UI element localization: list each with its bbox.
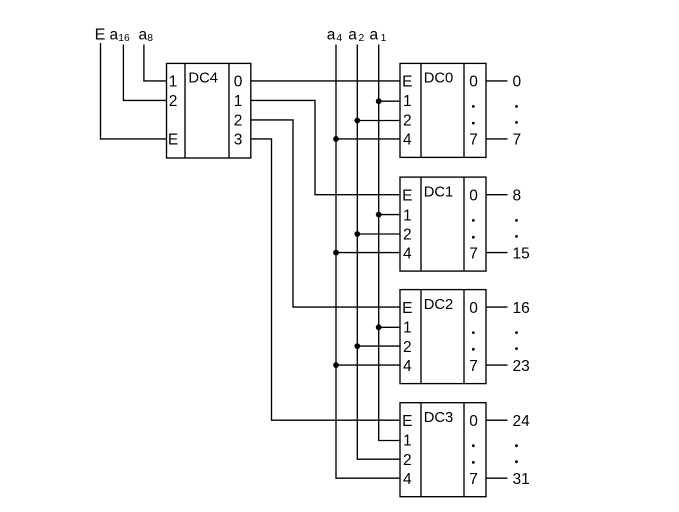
ellipsis dots outputs 8..15 (515, 219, 518, 222)
svg-text:2: 2 (403, 452, 412, 469)
decoder U5 DC3 outline (400, 403, 486, 497)
svg-text:a: a (370, 27, 379, 44)
decoder U2 DC0 inner column separators (421, 63, 464, 157)
svg-text:a: a (348, 27, 357, 44)
wire DC2 output 0 (486, 306, 508, 308)
wire a1 tap to DC0 input 1 (379, 100, 400, 102)
svg-text:1: 1 (403, 432, 412, 449)
wire DC4 output 3 to DC3 E (251, 139, 400, 420)
svg-text:E: E (402, 300, 412, 317)
svg-text:DC2: DC2 (424, 297, 454, 313)
svg-text:4: 4 (403, 358, 412, 375)
wire DC4 output 1 to DC1 E (251, 100, 400, 194)
wire a4 tap to DC1 input 4 (336, 252, 400, 254)
svg-text:2: 2 (403, 227, 412, 244)
svg-text:23: 23 (513, 358, 530, 375)
wire DC2 output 7 (486, 364, 508, 366)
svg-text:E: E (402, 413, 412, 430)
svg-text:2: 2 (169, 93, 178, 110)
junction a2/DC0 (354, 118, 360, 124)
junction a1/DC1 (376, 212, 382, 218)
wire DC3 output 7 (486, 477, 508, 479)
svg-text:31: 31 (513, 471, 530, 488)
wire DC4 output 2 to DC2 E (251, 120, 400, 307)
svg-text:1: 1 (169, 74, 178, 91)
wire DC1 output 7 (486, 252, 508, 254)
decoder U1 DC4 outline (167, 63, 251, 158)
wire E input (101, 43, 167, 139)
wire a2 tap to DC2 input 2 (357, 345, 400, 347)
wire DC0 output 0 (486, 80, 508, 82)
svg-text:0: 0 (469, 187, 478, 204)
junction a1/DC0 (376, 98, 382, 104)
wire DC0 output 7 (486, 138, 508, 140)
svg-text:4: 4 (403, 245, 412, 262)
svg-text:16: 16 (513, 300, 530, 317)
svg-text:DC0: DC0 (424, 71, 454, 87)
svg-text:7: 7 (469, 471, 478, 488)
svg-text:7: 7 (469, 358, 478, 375)
decoder U2 DC0 outline (400, 63, 486, 157)
svg-text:16: 16 (118, 33, 130, 44)
svg-text:DC3: DC3 (424, 410, 454, 426)
svg-text:0: 0 (469, 413, 478, 430)
decoder U4 DC2 outline (400, 290, 486, 384)
junction a2/DC2 (354, 343, 360, 349)
ellipsis dots outputs 24..31 (515, 444, 518, 447)
wire a1 tap to DC2 input 1 (379, 326, 400, 328)
svg-text:7: 7 (469, 132, 478, 149)
svg-text:0: 0 (234, 74, 243, 91)
svg-text:3: 3 (234, 132, 243, 149)
svg-text:2: 2 (403, 339, 412, 356)
svg-text:a: a (139, 27, 148, 44)
svg-text:2: 2 (359, 33, 365, 44)
svg-text:E: E (95, 27, 106, 44)
svg-text:4: 4 (336, 33, 342, 44)
svg-text:24: 24 (513, 413, 531, 430)
wire a16 input (123, 45, 166, 101)
svg-text:8: 8 (147, 33, 153, 44)
svg-text:7: 7 (469, 245, 478, 262)
svg-text:8: 8 (513, 187, 522, 204)
ellipsis dots outputs 16..23 (515, 331, 518, 334)
ellipsis dots outputs 0..7 (515, 105, 518, 108)
decoder U5 DC3 inner column separators (421, 403, 464, 497)
decoder U4 DC2 inner column separators (421, 290, 464, 384)
decoder U3 DC1 outline (400, 177, 486, 271)
wire a4 tap to DC2 input 4 (336, 364, 400, 366)
wire a2 tap to DC0 input 2 (357, 120, 400, 122)
svg-text:0: 0 (513, 74, 522, 91)
svg-text:7: 7 (513, 132, 522, 149)
svg-text:1: 1 (234, 93, 243, 110)
DC2 ellipsis dots (472, 331, 475, 334)
junction a2/DC1 (354, 231, 360, 237)
svg-text:15: 15 (513, 245, 530, 262)
decoder U1 DC4 inner column separators (185, 63, 229, 158)
svg-text:2: 2 (234, 113, 243, 130)
svg-text:E: E (168, 132, 178, 149)
wire a2 vertical bus to DC3 input 2 (357, 45, 400, 460)
DC0 ellipsis dots (472, 105, 475, 108)
svg-text:a: a (110, 27, 119, 44)
svg-text:a: a (327, 27, 336, 44)
svg-text:0: 0 (469, 74, 478, 91)
wire DC3 output 0 (486, 419, 508, 421)
svg-text:4: 4 (403, 471, 412, 488)
wire DC4 output 0 to DC0 E (251, 80, 400, 82)
svg-text:1: 1 (381, 33, 387, 44)
wire DC1 output 0 (486, 194, 508, 196)
decoder U3 DC1 inner column separators (421, 177, 464, 271)
svg-text:1: 1 (403, 207, 412, 224)
junction a4/DC0 (333, 136, 339, 142)
svg-text:DC4: DC4 (188, 71, 218, 87)
DC3 ellipsis dots (472, 444, 475, 447)
wire a4 vertical bus to DC3 input 4 (336, 45, 400, 479)
DC1 ellipsis dots (472, 219, 475, 222)
junction a1/DC2 (376, 324, 382, 330)
wire a1 tap to DC1 input 1 (379, 214, 400, 216)
junction a4/DC1 (333, 250, 339, 256)
wire a1 vertical bus to DC3 input 1 (379, 45, 400, 441)
wire a8 input (144, 45, 167, 81)
junction a4/DC2 (333, 362, 339, 368)
wire a2 tap to DC1 input 2 (357, 233, 400, 235)
svg-text:2: 2 (403, 113, 412, 130)
svg-text:1: 1 (403, 93, 412, 110)
svg-text:E: E (402, 74, 412, 91)
svg-text:E: E (402, 187, 412, 204)
svg-text:1: 1 (403, 319, 412, 336)
svg-text:4: 4 (403, 132, 412, 149)
svg-text:0: 0 (469, 300, 478, 317)
wire a4 tap to DC0 input 4 (336, 138, 400, 140)
svg-text:DC1: DC1 (424, 184, 454, 200)
